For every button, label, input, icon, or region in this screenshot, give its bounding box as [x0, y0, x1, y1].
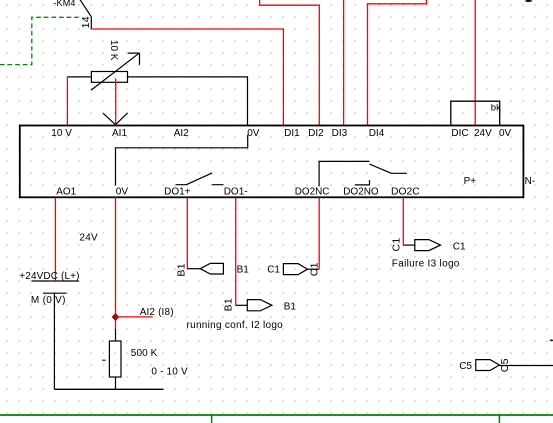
sheet border tick left — [211, 415, 213, 423]
svg-text:M (0 V): M (0 V) — [31, 295, 66, 306]
svg-text:B1: B1 — [284, 301, 297, 312]
svg-text:0V: 0V — [247, 128, 260, 139]
svg-text:B1: B1 — [223, 298, 235, 311]
svg-text:DIC: DIC — [451, 128, 468, 139]
svg-text:0V: 0V — [499, 128, 512, 139]
svg-text:C1: C1 — [391, 237, 403, 251]
interruption arrow C1 stub (DO2NC) — [308, 268, 320, 270]
wire C5 to right edge — [499, 365, 553, 367]
svg-text:AO1: AO1 — [56, 187, 76, 198]
sheet border green line — [0, 414, 553, 416]
clipped wire stub top right — [525, 0, 526, 2]
wire AO1 to +24VDC — [54, 198, 56, 281]
wire DO2NC down — [318, 198, 320, 269]
svg-text:AI2: AI2 — [174, 128, 189, 139]
potential underline — [32, 280, 79, 282]
sheet border tick right — [498, 415, 500, 423]
minus mark — [102, 359, 105, 361]
svg-text:DO1-: DO1- — [224, 187, 248, 198]
bottom return wire — [54, 388, 163, 390]
interruption arrow C1 stub (DO2C) — [403, 244, 415, 246]
svg-text:DI1: DI1 — [284, 128, 300, 139]
terminal notch bk — [451, 101, 500, 125]
wire pot left lead — [67, 76, 91, 78]
svg-text:P+: P+ — [464, 176, 477, 187]
svg-text:DO2NC: DO2NC — [295, 187, 330, 198]
svg-text:0V: 0V — [116, 187, 129, 198]
wire DO1- down — [235, 198, 237, 306]
svg-text:DI2: DI2 — [308, 128, 324, 139]
clipped mark right edge — [549, 340, 550, 341]
svg-text:10 K: 10 K — [108, 40, 119, 61]
resistor 500 K top lead — [115, 329, 117, 341]
resistor 500 K body — [109, 341, 121, 377]
wire DI2 from top — [260, 0, 320, 125]
resistor 500 K bottom lead — [115, 377, 117, 389]
interruption arrow C1 symbol (DO2NC) — [283, 264, 307, 275]
wire DO1+ down — [186, 198, 188, 269]
contact DO1 — [176, 173, 224, 185]
svg-text:24V: 24V — [79, 233, 98, 244]
svg-text:AI1: AI1 — [112, 128, 127, 139]
wire 24V supply — [474, 0, 476, 126]
wire M (0 V) down — [53, 293, 55, 389]
wire DI3 from top — [343, 0, 345, 125]
svg-text:DO1+: DO1+ — [164, 187, 191, 198]
svg-text:Failure I3 logo: Failure I3 logo — [392, 259, 460, 270]
wire DI4 from top — [368, 0, 427, 125]
wire pot right lead to 0V pin — [128, 77, 248, 125]
svg-text:DO2C: DO2C — [391, 187, 420, 198]
interruption arrow B1 left stub — [187, 268, 200, 270]
svg-text:C1: C1 — [308, 262, 320, 276]
svg-text:10 V: 10 V — [51, 128, 72, 139]
device block outline — [20, 126, 524, 198]
wire net -KM4 to DI1 — [91, 29, 283, 125]
svg-text:DI4: DI4 — [369, 128, 385, 139]
svg-text:N-: N- — [525, 176, 536, 187]
potentiometer wiper arrow — [91, 53, 139, 90]
interruption arrow B1 bottom symbol — [247, 300, 272, 311]
interruption arrow B1 bottom stub — [236, 304, 248, 306]
wire AI1 from pot wiper — [115, 79, 117, 124]
svg-text:AI2 (I8): AI2 (I8) — [140, 307, 174, 318]
green dashed boundary — [0, 17, 78, 64]
wire DO2C down — [402, 198, 404, 246]
svg-text:B1: B1 — [176, 263, 188, 276]
wire 0V bottom to AI2 junction — [115, 198, 117, 329]
AI1 input arrowhead — [103, 113, 128, 125]
svg-text:24V: 24V — [474, 128, 492, 139]
svg-text:500 K: 500 K — [131, 348, 158, 359]
svg-text:C5: C5 — [459, 361, 472, 372]
wire 10 V — [66, 77, 68, 125]
svg-text:bk: bk — [491, 102, 501, 113]
contact -KM4 blade — [80, 0, 91, 17]
svg-text:B1: B1 — [237, 264, 250, 275]
potential overline — [43, 292, 66, 294]
interruption arrow B1 left symbol — [200, 263, 223, 274]
svg-text:C1: C1 — [453, 242, 466, 253]
svg-text:running conf. I2 logo: running conf. I2 logo — [187, 320, 284, 331]
svg-text:DO2NO: DO2NO — [343, 187, 379, 198]
interruption arrow C5 symbol — [476, 360, 500, 371]
svg-text:-KM4: -KM4 — [53, 0, 75, 8]
internal 0V link — [116, 135, 248, 186]
svg-text:C1: C1 — [267, 264, 280, 275]
potentiometer body 10 K — [91, 72, 127, 83]
contact -KM4 terminal 14 lead — [90, 17, 92, 29]
svg-text:+24VDC (L+): +24VDC (L+) — [19, 271, 79, 282]
wire branch AI2 (I8) — [116, 316, 153, 318]
svg-text:14: 14 — [80, 16, 92, 28]
svg-text:DI3: DI3 — [332, 128, 348, 139]
junction dot AI2 (I8) — [112, 313, 120, 321]
interruption arrow C1 symbol (DO2C) — [415, 240, 441, 251]
svg-text:0 - 10 V: 0 - 10 V — [151, 367, 188, 378]
changeover contact DO2 — [319, 161, 407, 186]
